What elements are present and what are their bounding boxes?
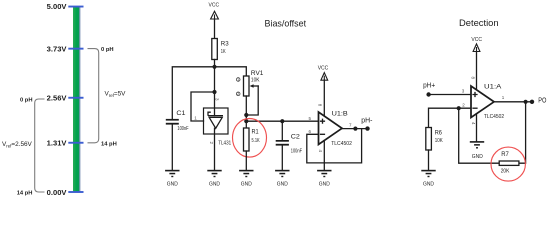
svg-text:C2: C2 <box>291 134 300 141</box>
wire rail to op-amp pin5 <box>246 120 318 122</box>
wire VCC to U1:B pin8 <box>323 80 325 116</box>
svg-text:pH-: pH- <box>361 116 373 125</box>
node C2 junction <box>280 119 284 123</box>
svg-text:GND: GND <box>423 181 434 187</box>
svg-text:C1: C1 <box>176 110 185 117</box>
wire U1:B feedback pin6 loop <box>307 129 362 163</box>
wire horizontal rail to C1 and RV1 <box>172 67 246 119</box>
svg-text:R3: R3 <box>221 41 229 48</box>
svg-text:10K: 10K <box>251 77 260 83</box>
svg-text:5.1K: 5.1K <box>252 138 260 144</box>
svg-text:1: 1 <box>237 78 239 82</box>
svg-text:U1:A: U1:A <box>484 84 502 91</box>
node pin2 junction <box>457 106 461 110</box>
TL431 U2 box <box>204 108 229 134</box>
node junction ref loop <box>212 90 216 94</box>
tick 0.00V <box>68 191 83 193</box>
op-amp U1:B <box>319 112 343 145</box>
svg-text:5.00V: 5.00V <box>47 2 68 11</box>
svg-text:Detection: Detection <box>459 18 499 28</box>
ground under R6 <box>421 170 435 188</box>
wire R6 to GND <box>428 150 430 170</box>
svg-text:0 pH: 0 pH <box>101 47 114 53</box>
svg-text:TLC4502: TLC4502 <box>331 141 352 147</box>
svg-text:2: 2 <box>237 92 239 96</box>
tick 2.56V <box>68 97 83 99</box>
svg-text:TL431: TL431 <box>218 140 231 146</box>
svg-text:pH+: pH+ <box>423 80 435 89</box>
wire pH+ to pin3 <box>429 94 471 96</box>
svg-text:0 pH: 0 pH <box>20 97 33 103</box>
svg-text:10K: 10K <box>435 138 443 144</box>
svg-text:R6: R6 <box>435 129 442 136</box>
svg-text:R1: R1 <box>252 129 259 136</box>
resistor R6 <box>426 128 432 151</box>
RV1 pin rings <box>236 78 240 82</box>
wire U1:A output to PO <box>494 101 532 103</box>
svg-text:VCC: VCC <box>318 66 329 72</box>
node output junction <box>353 127 357 131</box>
resistor R7 <box>499 161 519 165</box>
wire C2 to GND <box>281 146 283 170</box>
svg-text:0.00V: 0.00V <box>47 188 68 197</box>
capacitor C1 <box>166 119 179 121</box>
svg-text:RV1: RV1 <box>251 70 264 77</box>
TL431 ref loop wire <box>191 92 215 121</box>
terminal pH- <box>365 126 369 130</box>
wire feedback R7 loop <box>459 102 526 163</box>
svg-text:GND: GND <box>472 154 483 160</box>
wire R3 to TL431 cathode <box>214 60 216 116</box>
svg-text:1.31V: 1.31V <box>47 138 68 147</box>
potentiometer RV1 body <box>244 76 250 96</box>
svg-text:GND: GND <box>209 181 220 187</box>
wire U1:B pin4 to GND <box>323 141 325 171</box>
tick 1.31V <box>68 142 83 144</box>
wire TL431 anode to GND <box>214 128 216 170</box>
svg-text:14 pH: 14 pH <box>17 190 33 196</box>
node rail junction <box>244 119 248 123</box>
svg-text:14 pH: 14 pH <box>101 142 117 148</box>
wire C1 to GND <box>171 125 173 170</box>
svg-text:100nF: 100nF <box>177 126 189 132</box>
resistor R1 <box>244 128 250 151</box>
svg-text:GND: GND <box>319 181 330 187</box>
TL431 zener triangle <box>209 117 222 128</box>
ground under C1 <box>165 170 179 188</box>
terminal PO <box>530 100 534 104</box>
node output junction <box>524 100 528 104</box>
ground under U1:A <box>470 141 484 160</box>
ground under U1:B <box>317 170 331 188</box>
svg-text:Vref=5V: Vref=5V <box>105 91 127 99</box>
svg-text:R7: R7 <box>501 151 509 158</box>
left bracket 2.56V-0.00V <box>35 99 45 192</box>
ground under C2 <box>275 170 289 188</box>
tick 3.73V <box>68 48 83 50</box>
TL431 cathode bar <box>208 112 223 116</box>
wire R1 to GND <box>245 151 247 170</box>
svg-text:20K: 20K <box>501 169 510 175</box>
wire U1:B output <box>342 128 368 130</box>
svg-text:GND: GND <box>277 181 288 187</box>
ground under R1 <box>239 170 253 188</box>
wire U1:A pin4 to GND <box>476 114 478 141</box>
wire pin2 to R6 <box>429 108 472 127</box>
RV1 wiper wire down to bottom terminal <box>246 86 258 115</box>
svg-text:100nF: 100nF <box>291 149 303 155</box>
node junction R3/rail <box>212 65 216 69</box>
tick 5.00V <box>68 6 83 8</box>
svg-text:Bias/offset: Bias/offset <box>265 18 307 28</box>
resistor R3 <box>212 39 218 60</box>
svg-text:TLC4502: TLC4502 <box>484 114 504 120</box>
svg-text:1K: 1K <box>221 49 226 55</box>
wire VCC to R3 <box>214 19 216 39</box>
svg-text:U1:B: U1:B <box>332 110 349 117</box>
wire VCC to U1:A pin8 <box>476 52 478 91</box>
ground under TL431 <box>207 170 221 188</box>
red circle around R1 <box>233 119 267 158</box>
svg-text:PO: PO <box>538 95 546 104</box>
svg-text:GND: GND <box>241 181 252 187</box>
svg-text:2.56V: 2.56V <box>47 93 68 102</box>
right bracket 3.73V-1.31V <box>88 49 99 143</box>
wire RV1 bottom to R1 <box>245 96 247 128</box>
RV1 wiper arrow <box>253 85 258 87</box>
red circle around R7 <box>491 147 525 181</box>
svg-text:VCC: VCC <box>471 37 482 43</box>
wire down to C2 <box>281 121 283 140</box>
svg-text:3.73V: 3.73V <box>47 44 68 53</box>
node wiper junction <box>244 113 248 117</box>
capacitor C2 <box>276 140 289 142</box>
svg-text:GND: GND <box>167 181 178 187</box>
op-amp U1:A <box>471 86 494 118</box>
svg-text:VCC: VCC <box>209 3 220 9</box>
